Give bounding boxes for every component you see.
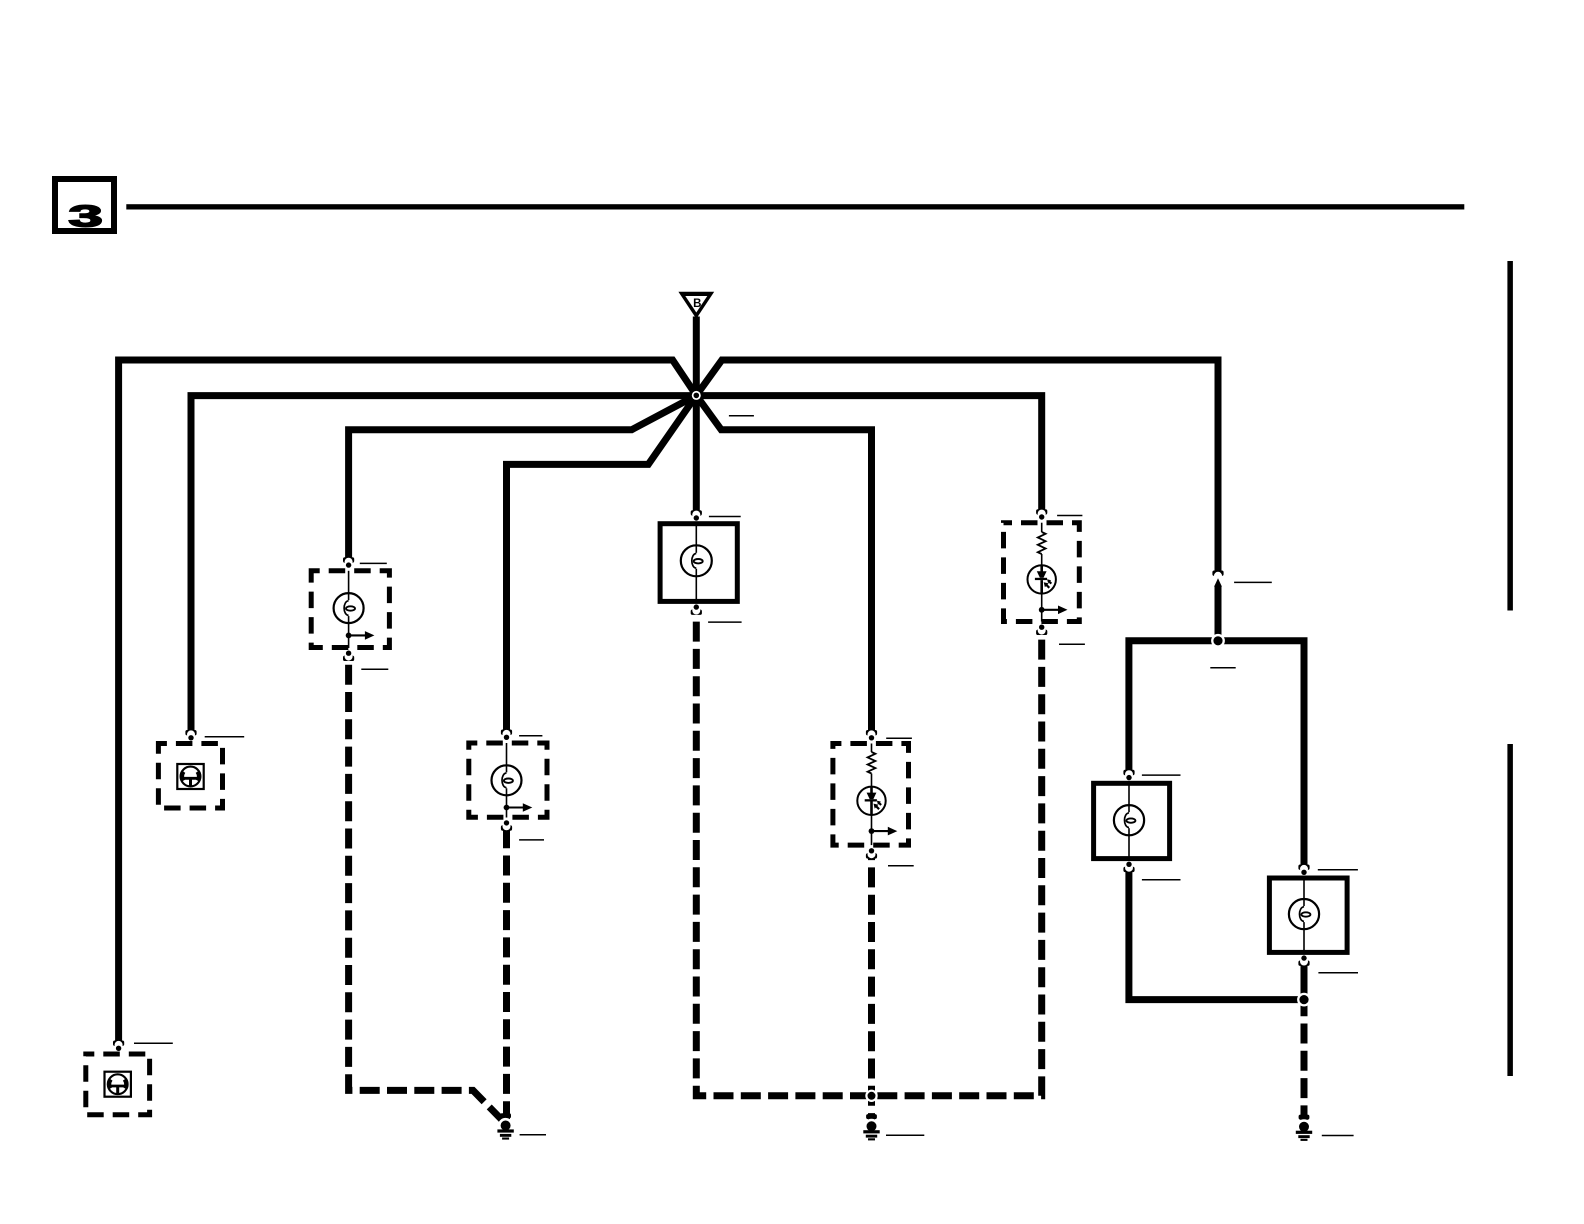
junction node: parallel loop feed — [1211, 634, 1225, 648]
label dash: box F pin bottom — [1142, 879, 1181, 881]
indicator box E (dashed, resistor + LED) — [1004, 509, 1080, 635]
wire (shield/dashed): box D return crossing bottom bus to ground G2 — [868, 855, 875, 1120]
label dash: box G pin top — [1318, 869, 1358, 871]
star junction node (splice from B+) — [690, 389, 703, 402]
wire (shield/dashed): lamp C and box E returns along bottom bus — [696, 612, 1041, 1096]
wire (shield/dashed): lamp A return to ground G1 — [349, 657, 504, 1121]
lamp box A (dashed) — [311, 557, 389, 661]
inline connector on right branch riser — [1212, 571, 1223, 587]
label dash: ground G2 — [886, 1134, 924, 1136]
label dash: box D pin bottom — [888, 865, 914, 867]
resistor in box D — [868, 752, 876, 774]
wire: vertical feed from connector B through star to lamp box C — [693, 317, 700, 514]
label dash: box H — [205, 736, 245, 738]
wire: parallel lamp loop top (left riser, bridge, right riser) — [1129, 641, 1304, 868]
wire: net y430 left (to lamp box A) — [349, 395, 697, 560]
label dash: box A pin top — [360, 562, 387, 564]
wire: lamp G bottom stub to junction — [1301, 962, 1308, 1000]
right margin bar (upper) — [1507, 261, 1513, 611]
lamp box B (dashed) — [469, 730, 547, 831]
header index box "3" — [55, 179, 114, 233]
resistor in box E — [1038, 532, 1046, 554]
wire (shield/dashed): parallel lamp loop return to ground G3 — [1301, 1000, 1308, 1121]
wire: net y464 left (to lamp box B) — [507, 395, 697, 732]
header rule — [126, 204, 1464, 209]
wire: net y395 left (to noise filter H) — [191, 396, 696, 733]
svg-text:B: B — [693, 298, 701, 310]
junction node: parallel loop return — [1297, 993, 1311, 1007]
right margin bar (lower) — [1507, 744, 1513, 1076]
junction node: bottom bus to ground G2 — [865, 1090, 877, 1102]
label dash: star splice — [729, 415, 754, 417]
label dash: box G pin bottom — [1318, 972, 1358, 974]
wire: net y395 right (to indicator box E) — [696, 396, 1041, 513]
label dash: box E pin top — [1057, 515, 1082, 517]
ground G3 — [1296, 1115, 1312, 1141]
label dash: box B pin top — [519, 735, 542, 737]
wire (shield/dashed): lamp B return to ground G1 — [503, 827, 510, 1119]
svg-text:3: 3 — [68, 199, 102, 233]
wire: net y360 left (node I riser, top-left horizontal, diagonal into star) — [119, 360, 697, 1044]
label dash: box I — [134, 1042, 173, 1044]
label dash: inline connector — [1234, 581, 1272, 583]
label dash: box E pin bottom — [1059, 643, 1085, 645]
lamp box F (solid) — [1094, 770, 1170, 872]
label dash: box D pin top — [886, 737, 912, 739]
lamp box G (solid) — [1269, 865, 1347, 966]
label dash: box C pin bottom — [708, 621, 742, 623]
wire: net y360 right (top-right horizontal to right branch riser) — [696, 360, 1218, 574]
lamp box C (solid) — [660, 510, 737, 615]
noise filter box H (dashed) — [158, 730, 222, 808]
ground G1 — [497, 1113, 513, 1139]
label dash: box F pin top — [1142, 774, 1181, 776]
label dash: ground G1 — [520, 1134, 546, 1136]
wire: net y430 right (to indicator box D) — [696, 395, 871, 733]
label dash: box A pin bottom — [361, 668, 388, 670]
wire: right branch connector male end to junction — [1215, 586, 1222, 641]
label dash: box B pin bottom — [519, 839, 544, 841]
wire: lamp F bottom riser and bottom bridge — [1129, 868, 1304, 999]
indicator box D (dashed, resistor + LED) — [833, 730, 909, 859]
label dash: ground G3 — [1322, 1135, 1354, 1137]
label dash: box C pin top — [709, 516, 741, 518]
LED in box D — [857, 787, 885, 815]
ground G2 — [863, 1114, 879, 1140]
connector B (triangle) — [678, 292, 714, 319]
label dash: loop feed junction — [1210, 667, 1235, 669]
LED in box E — [1028, 565, 1056, 593]
noise filter box I (dashed) — [86, 1041, 150, 1115]
